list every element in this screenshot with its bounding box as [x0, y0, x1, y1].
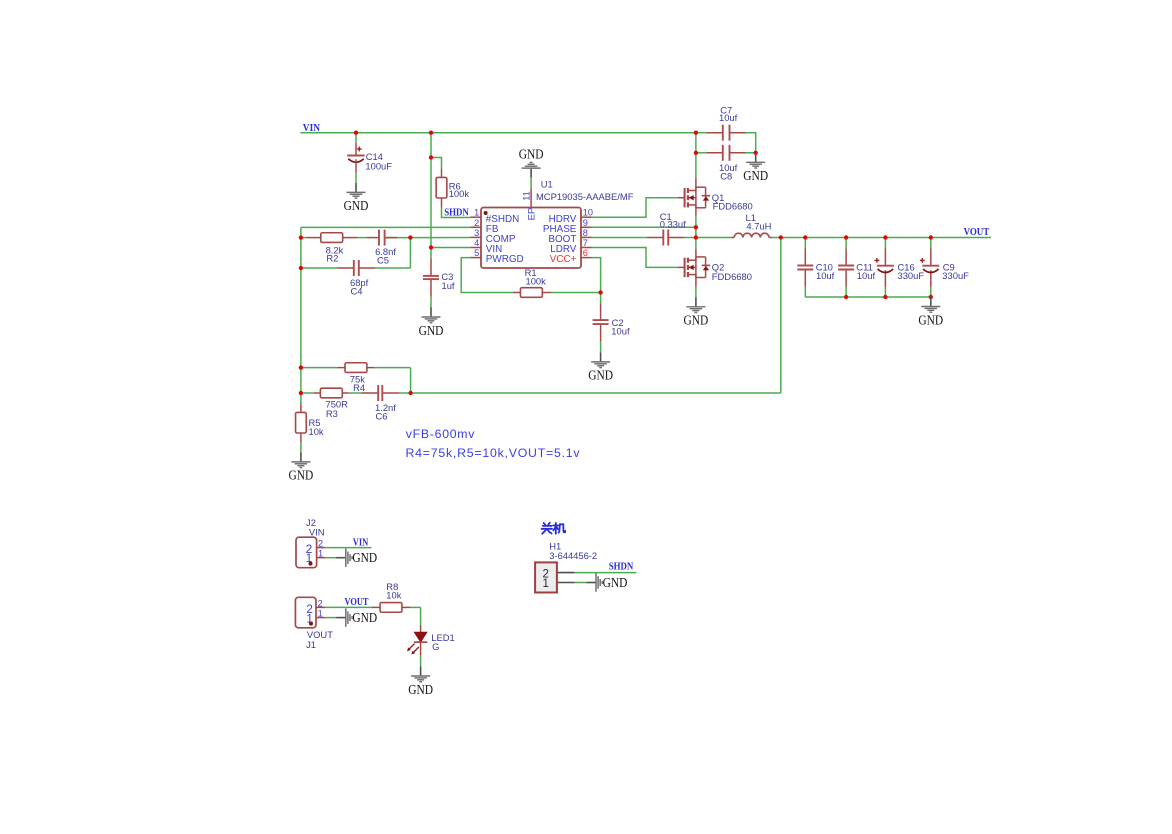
svg-text:3-644456-2: 3-644456-2 — [549, 550, 597, 561]
svg-text:8: 8 — [583, 228, 588, 238]
svg-text:330uF: 330uF — [942, 270, 969, 281]
svg-text:2: 2 — [318, 538, 323, 548]
svg-text:GND: GND — [743, 169, 768, 184]
svg-text:100k: 100k — [449, 188, 470, 199]
svg-text:10: 10 — [583, 208, 593, 218]
svg-text:C5: C5 — [377, 255, 389, 266]
svg-text:GND: GND — [603, 576, 628, 591]
svg-text:1uf: 1uf — [442, 280, 455, 291]
svg-text:VIN: VIN — [309, 526, 325, 537]
svg-text:VIN: VIN — [353, 538, 369, 549]
svg-text:2: 2 — [318, 598, 323, 608]
svg-text:5: 5 — [474, 248, 479, 258]
svg-text:GND: GND — [344, 199, 369, 214]
svg-text:4.7uH: 4.7uH — [746, 221, 771, 232]
svg-text:10k: 10k — [386, 589, 401, 600]
svg-text:GND: GND — [419, 324, 444, 339]
svg-text:9: 9 — [583, 218, 588, 228]
svg-text:330uF: 330uF — [898, 270, 925, 281]
svg-text:GND: GND — [519, 147, 544, 162]
svg-text:MCP19035-AAABE/MF: MCP19035-AAABE/MF — [536, 191, 634, 202]
svg-text:GND: GND — [588, 369, 613, 384]
svg-text:U1: U1 — [541, 178, 553, 189]
svg-text:C8: C8 — [720, 170, 732, 181]
svg-text:1: 1 — [542, 578, 548, 590]
svg-text:SHDN: SHDN — [609, 562, 634, 573]
svg-text:VIN: VIN — [303, 123, 321, 134]
svg-text:10uf: 10uf — [816, 270, 835, 281]
svg-text:10k: 10k — [309, 426, 324, 437]
svg-text:10uf: 10uf — [857, 270, 876, 281]
svg-text:GND: GND — [352, 551, 377, 566]
svg-text:4: 4 — [474, 238, 479, 248]
svg-text:C6: C6 — [376, 411, 388, 422]
svg-text:SHDN: SHDN — [444, 208, 469, 219]
svg-text:GND: GND — [289, 469, 314, 484]
svg-text:R4: R4 — [353, 382, 365, 393]
svg-text:R4=75k,R5=10k,VOUT=5.1v: R4=75k,R5=10k,VOUT=5.1v — [406, 446, 581, 460]
svg-text:FDD6680: FDD6680 — [712, 271, 752, 282]
svg-text:J1: J1 — [306, 639, 316, 650]
svg-text:GND: GND — [352, 611, 377, 626]
svg-text:11: 11 — [521, 191, 531, 201]
svg-text:R2: R2 — [326, 252, 338, 263]
svg-text:GND: GND — [684, 314, 709, 329]
svg-text:C4: C4 — [351, 285, 363, 296]
svg-text:0.33uf: 0.33uf — [660, 219, 686, 230]
svg-text:R3: R3 — [326, 408, 338, 419]
svg-text:VOUT: VOUT — [964, 227, 990, 238]
svg-text:7: 7 — [583, 238, 588, 248]
svg-text:100uF: 100uF — [365, 161, 392, 172]
svg-text:VCC+: VCC+ — [550, 254, 577, 265]
svg-text:10uf: 10uf — [611, 326, 630, 337]
svg-text:VOUT: VOUT — [345, 597, 369, 608]
svg-text:3: 3 — [474, 228, 479, 238]
svg-text:1: 1 — [318, 548, 323, 558]
svg-text:100k: 100k — [526, 276, 547, 287]
svg-text:FDD6680: FDD6680 — [713, 200, 753, 211]
svg-text:PWRGD: PWRGD — [486, 254, 524, 265]
svg-text:vFB-600mv: vFB-600mv — [406, 427, 475, 441]
svg-text:1: 1 — [318, 609, 323, 619]
svg-text:G: G — [432, 641, 439, 652]
svg-text:6: 6 — [583, 248, 588, 258]
svg-text:GND: GND — [918, 313, 943, 328]
svg-text:GND: GND — [408, 683, 433, 698]
svg-text:2: 2 — [474, 218, 479, 228]
svg-text:10uf: 10uf — [719, 112, 738, 123]
svg-text:1: 1 — [474, 208, 479, 218]
svg-text:EP: EP — [526, 208, 537, 221]
